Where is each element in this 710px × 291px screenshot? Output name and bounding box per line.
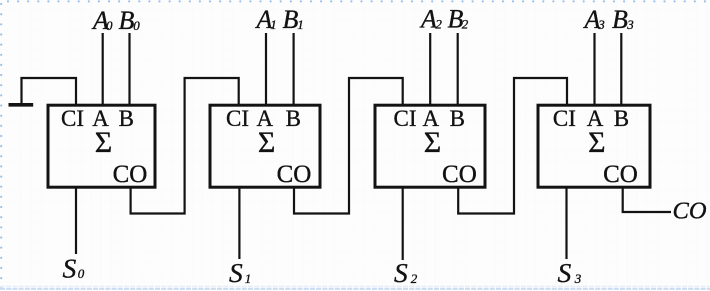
svg-text:1: 1 [297,17,304,32]
wire: ground to U1 CI [20,78,76,105]
svg-text:0: 0 [106,18,113,33]
svg-text:B: B [614,106,629,131]
svg-text:B: B [450,106,465,131]
svg-text:2: 2 [435,16,442,31]
svg-text:3: 3 [597,17,605,32]
svg-text:B: B [119,6,135,35]
svg-text:B: B [283,5,299,34]
svg-text:S: S [229,257,243,288]
svg-text:B: B [612,5,628,34]
U1 body [48,105,155,187]
wire: S0 output [75,186,77,254]
full adder U4 [538,105,650,188]
svg-text:3: 3 [626,17,634,32]
svg-text:A: A [419,5,437,34]
svg-text:Σ: Σ [424,126,441,159]
svg-text:CI: CI [394,106,417,131]
svg-text:3: 3 [574,271,582,286]
svg-text:2: 2 [462,16,469,31]
svg-text:S: S [394,257,408,288]
svg-text:CI: CI [61,106,84,131]
wire: B2 input [457,33,459,105]
wire: U2 CO to U3 CI [294,78,403,214]
blue dot row, top edge [7,0,706,2]
wire: S1 output [238,186,240,259]
wire: U1 CO to U2 CI [131,78,239,214]
svg-text:CO: CO [277,161,312,188]
svg-text:Σ: Σ [588,126,605,159]
svg-text:CO: CO [603,161,638,188]
svg-text:CO: CO [442,161,477,188]
full adder U1 [48,105,155,188]
svg-text:2: 2 [411,271,418,286]
svg-text:0: 0 [133,18,140,33]
wire: S3 output [565,186,567,259]
wire: U4 CO out [623,186,671,212]
full adder U3 [375,105,485,188]
ground bar [9,103,34,107]
svg-text:CI: CI [226,106,249,131]
U2 body [210,105,320,187]
U3 body [375,105,485,187]
wire: B1 input [293,33,295,105]
full adder U2 [210,105,320,188]
svg-text:S: S [558,257,572,288]
wire: A0 input [102,33,104,105]
blue dashed baseline, bottom edge [0,285,710,287]
svg-text:B: B [119,106,134,131]
svg-text:CO: CO [673,198,707,225]
svg-text:0: 0 [78,266,85,281]
svg-text:S: S [63,252,77,283]
wire: A3 input [593,33,595,105]
ground [20,78,22,104]
wire: A2 input [429,33,431,105]
svg-text:Σ: Σ [258,126,275,159]
blue dot column, left edge [0,3,2,289]
svg-text:CO: CO [113,161,148,188]
wires and symbols [9,33,672,260]
svg-text:Σ: Σ [95,126,112,159]
svg-text:CI: CI [553,106,576,131]
svg-text:1: 1 [270,17,277,32]
svg-text:1: 1 [245,271,252,286]
U4 body [538,105,650,187]
wire: S2 output [402,186,404,260]
wire: B3 input [620,33,622,105]
wire: B0 input [128,33,130,105]
wire: U3 CO to U4 CI [458,78,567,214]
wire: A1 input [265,33,267,105]
svg-text:B: B [286,106,301,131]
